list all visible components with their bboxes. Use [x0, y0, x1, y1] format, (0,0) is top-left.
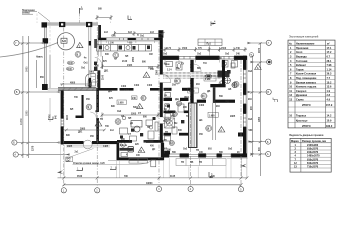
svg-text:ДШ: ДШ — [175, 99, 180, 101]
boiler fixtures — [218, 63, 236, 78]
svg-text:Кухня-Столовая: Кухня-Столовая — [296, 73, 317, 76]
door D2 arc — [163, 75, 171, 83]
svg-text:13.6: 13.6 — [327, 86, 332, 89]
svg-text:Ок4: Ок4 — [248, 70, 253, 73]
svg-text:10.2: 10.2 — [327, 81, 332, 84]
oval mark 2 — [66, 67, 74, 71]
svg-text:7.7: 7.7 — [327, 77, 331, 80]
svg-text:5265: 5265 — [131, 113, 137, 115]
tag 16 — [201, 93, 207, 99]
row leader B left — [17, 141, 60, 143]
svg-text:Ок1: Ок1 — [111, 36, 116, 38]
svg-text:Ок2: Ок2 — [183, 149, 188, 151]
svg-text:ПВ: ПВ — [190, 162, 194, 164]
svg-text:Ок1: Ок1 — [140, 36, 145, 38]
boxed 240 — [132, 96, 138, 100]
svg-text:2сл: 2сл — [110, 130, 115, 132]
svg-text:910х2070: 910х2070 — [307, 151, 319, 154]
svg-text:2985: 2985 — [230, 116, 236, 118]
fixture dark marks — [167, 70, 231, 123]
svg-text:Экспликация помещений: Экспликация помещений — [289, 36, 319, 39]
bubble V1 right — [267, 59, 272, 64]
dim line garage bottom — [60, 83, 91, 86]
svg-text:1402: 1402 — [147, 84, 153, 87]
detail circle — [83, 140, 92, 149]
svg-text:2985: 2985 — [80, 128, 86, 130]
svg-text:2434: 2434 — [127, 64, 133, 67]
wall x214 — [213, 103, 216, 140]
svg-text:ВМ: ВМ — [197, 68, 201, 70]
tag 11 — [176, 101, 181, 106]
lintel tag box — [198, 39, 222, 56]
svg-text:ДК2: ДК2 — [225, 102, 230, 104]
living triangle — [143, 72, 150, 78]
bubble A left — [13, 152, 18, 157]
svg-text:Холл: Холл — [296, 51, 303, 54]
svg-text:ДШ1: ДШ1 — [184, 97, 190, 99]
svg-text:ТВ: ТВ — [181, 162, 184, 164]
svg-text:ХЛ: ХЛ — [114, 59, 118, 61]
svg-text:157.9: 157.9 — [326, 104, 333, 107]
bottom dim row1 — [58, 176, 249, 179]
svg-text:ДВ: ДВ — [207, 91, 211, 93]
svg-text:10.9: 10.9 — [327, 120, 332, 123]
svg-text:Ок2: Ок2 — [197, 54, 202, 56]
misc marks in sauna room — [121, 153, 156, 167]
svg-text:183.0: 183.0 — [326, 125, 333, 128]
svg-text:1.900: 1.900 — [189, 91, 195, 93]
living dim line — [101, 64, 160, 69]
wire — [48, 88, 58, 90]
section T1 right — [273, 98, 278, 103]
svg-text:1.900: 1.900 — [118, 103, 124, 105]
boxed 1900b — [117, 100, 126, 105]
door threshold — [189, 154, 198, 156]
row leader A left — [18, 153, 70, 155]
svg-text:Сауна: Сауна — [120, 145, 128, 147]
party wall upper — [98, 25, 101, 39]
door D3 arc — [163, 117, 169, 123]
door D1 arc garage-living — [94, 56, 103, 71]
svg-text:1870: 1870 — [259, 47, 261, 53]
svg-text:м²: м² — [327, 41, 330, 45]
svg-text:Веранда: Веранда — [296, 56, 307, 59]
kitchen-living wall — [96, 88, 117, 91]
svg-text:1100: 1100 — [67, 69, 73, 71]
svg-text:ДС: ДС — [152, 149, 156, 151]
triangle tag garage — [77, 43, 83, 49]
svg-text:2560: 2560 — [157, 69, 159, 75]
svg-text:БМ: БМ — [62, 39, 67, 43]
window W5 — [243, 70, 246, 83]
svg-text:7.98: 7.98 — [327, 64, 332, 67]
dotted partition — [164, 72, 225, 78]
bubble V left — [14, 89, 19, 94]
svg-text:910х2070: 910х2070 — [307, 158, 319, 161]
svg-text:Дк2: Дк2 — [95, 111, 100, 113]
tag 12b — [172, 111, 177, 116]
svg-text:Гостиная: Гостиная — [296, 60, 308, 63]
svg-text:ДК1: ДК1 — [78, 132, 83, 134]
dining tag — [115, 119, 121, 125]
window W9 — [169, 154, 180, 157]
sill lines — [66, 146, 110, 147]
shower cabin — [165, 118, 175, 128]
room triangle right — [218, 127, 225, 133]
dashed ext lines top-left — [37, 14, 50, 57]
room tag garage — [75, 51, 81, 57]
svg-text:14.2: 14.2 — [327, 114, 332, 117]
svg-text:ПЛ: ПЛ — [125, 56, 129, 58]
svg-text:Ок3: Ок3 — [163, 54, 168, 56]
extra ticks row under top wall right — [106, 41, 234, 63]
svg-text:ХЛ: ХЛ — [121, 116, 125, 118]
carport column C5 — [42, 84, 48, 90]
central wall — [160, 38, 163, 141]
sauna bottom wall — [117, 157, 165, 160]
sauna inner wall — [120, 148, 134, 151]
toilet — [165, 104, 170, 111]
carport column C4 — [43, 38, 49, 43]
triangle A right — [255, 64, 262, 70]
svg-text:1480х2070: 1480х2070 — [307, 155, 320, 158]
svg-text:28.1: 28.1 — [327, 60, 332, 63]
svg-text:2,14: 2,14 — [167, 69, 172, 72]
svg-text:Ванная комната: Ванная комната — [296, 81, 316, 84]
svg-text:ТВ: ТВ — [100, 119, 103, 121]
svg-text:2.8: 2.8 — [327, 94, 331, 97]
svg-text:ТП: ТП — [164, 140, 167, 142]
bubble 3 — [156, 186, 161, 191]
door arc wing — [90, 112, 96, 118]
svg-text:1.14: 1.14 — [327, 68, 332, 71]
chimney — [158, 30, 163, 38]
triangle tag hall — [95, 121, 102, 127]
svg-text:11330: 11330 — [20, 118, 23, 125]
svg-text:1402: 1402 — [124, 89, 130, 92]
garage east wall — [89, 27, 91, 88]
carport column C2 — [59, 22, 65, 27]
svg-text:Терраса: Терраса — [296, 114, 307, 117]
bottom dim row2 — [62, 183, 242, 186]
bottom wall right section — [163, 153, 247, 157]
svg-text:19800: 19800 — [146, 183, 153, 185]
svg-text:4800: 4800 — [70, 81, 76, 84]
scatter small texts right cluster — [105, 58, 226, 164]
svg-text:910х2070: 910х2070 — [307, 148, 319, 151]
svg-text:ВС: ВС — [176, 68, 180, 70]
svg-text:Ок2: Ок2 — [117, 111, 122, 113]
top wall left section — [98, 38, 162, 41]
living left texts — [102, 61, 113, 93]
left dim texts — [20, 66, 35, 151]
section mark 2 left — [48, 117, 53, 120]
window W7 — [243, 114, 246, 127]
window W10 — [206, 154, 217, 157]
row leader V right — [247, 91, 266, 93]
svg-text:Ведомость дверных проемов: Ведомость дверных проемов — [289, 135, 324, 137]
svg-text:1.100: 1.100 — [108, 43, 114, 45]
corridor wall segs — [164, 88, 191, 101]
svg-text:ТВ: ТВ — [199, 162, 202, 164]
svg-text:4950: 4950 — [258, 116, 261, 122]
svg-text:Комната отдыха: Комната отдыха — [296, 86, 317, 89]
bubble G left — [14, 40, 19, 45]
svg-text:Навес: Навес — [36, 57, 44, 59]
bubble A right — [266, 151, 271, 156]
window W4 — [220, 56, 235, 59]
window W12 — [61, 119, 64, 127]
svg-text:1500: 1500 — [221, 48, 227, 50]
bubble 1 — [61, 188, 66, 193]
wing-kitchen wall — [96, 91, 99, 113]
boilers — [225, 78, 237, 88]
svg-text:Санузел: Санузел — [296, 90, 307, 93]
closet by garage — [92, 82, 99, 86]
turning circle — [57, 33, 74, 50]
tag T — [249, 53, 253, 57]
svg-text:ВН: ВН — [174, 123, 178, 125]
kitchen dim line — [101, 113, 160, 118]
right dim lines — [251, 42, 262, 176]
section mark 1 bottom — [77, 168, 83, 171]
dining triangle — [137, 104, 143, 110]
bottom wall row B — [61, 140, 164, 144]
svg-text:1.980: 1.980 — [209, 115, 215, 117]
svg-text:Дк1: Дк1 — [108, 91, 113, 93]
section line 1 top — [79, 14, 81, 24]
grid verticals dashed — [64, 27, 241, 187]
svg-text:1402: 1402 — [199, 104, 205, 107]
room tag hall — [86, 104, 92, 110]
wing vertical texts — [55, 98, 91, 120]
svg-text:ум: ум — [164, 95, 167, 97]
row leader A right — [250, 153, 266, 155]
window W3 — [179, 56, 196, 59]
svg-text:810х2070: 810х2070 — [307, 162, 319, 165]
bubble B left — [12, 140, 17, 145]
row of window texts top-left — [108, 35, 139, 45]
svg-text:36.3: 36.3 — [327, 73, 332, 76]
svg-text:4.9: 4.9 — [327, 99, 331, 102]
carport thin outline — [45, 23, 99, 90]
svg-text:1402: 1402 — [134, 84, 140, 87]
svg-text:Марка: Марка — [291, 140, 299, 143]
window W1 — [106, 38, 128, 40]
bench steps — [129, 159, 148, 164]
svg-text:СМ: СМ — [149, 54, 153, 56]
step line — [108, 159, 129, 161]
tag 22 — [233, 81, 239, 87]
svg-text:ПР: ПР — [147, 127, 151, 129]
svg-text:2140: 2140 — [122, 60, 128, 63]
wing left wall — [61, 91, 64, 145]
kitchen-dining fixtures — [120, 116, 155, 141]
extension lines to dims — [23, 43, 231, 178]
square tag sauna — [128, 147, 134, 153]
svg-text:Под. помещение: Под. помещение — [296, 77, 317, 80]
svg-text:3540: 3540 — [77, 175, 83, 178]
svg-text:Сауна: Сауна — [296, 99, 304, 102]
svg-text:5365: 5365 — [26, 110, 29, 116]
svg-text:ДК1: ДК1 — [104, 71, 109, 73]
garage bottom wall — [58, 88, 96, 91]
svg-text:1.9: 1.9 — [327, 90, 331, 93]
oval mark 1100 — [67, 61, 74, 65]
row leader V1 right — [250, 61, 266, 63]
window W2 — [136, 38, 154, 40]
window W6 — [243, 95, 246, 104]
svg-text:ВЛ: ВЛ — [70, 109, 74, 111]
bubble 4 — [188, 186, 193, 191]
row leader V left — [20, 91, 61, 93]
top wall right section — [160, 56, 247, 60]
svg-text:№: № — [289, 42, 292, 45]
tag 30a — [175, 78, 181, 84]
sauna triangle — [138, 147, 145, 153]
svg-text:Ок2: Ок2 — [228, 149, 233, 151]
wing inner walls — [82, 95, 84, 118]
dining table — [131, 121, 142, 133]
terrain curve — [0, 43, 58, 58]
svg-text:Гараж: Гараж — [296, 68, 304, 71]
left dim line A — [21, 36, 30, 158]
svg-text:Дк2: Дк2 — [66, 160, 71, 162]
section mark L1 — [128, 16, 132, 20]
dim row over section2 — [113, 31, 165, 36]
table 1 rooms — [288, 36, 335, 128]
svg-text:6.7: 6.7 — [327, 56, 331, 59]
row leader G left — [19, 42, 44, 44]
svg-text:Ок1: Ок1 — [84, 63, 89, 65]
jamb block — [94, 39, 97, 48]
carport column C3 — [86, 22, 92, 27]
dims along bottom wall texts — [162, 148, 240, 154]
svg-text:Ок4: Ок4 — [248, 118, 253, 121]
extra small dims scatter — [66, 54, 236, 157]
svg-text:1402: 1402 — [89, 71, 95, 74]
living room tag — [113, 52, 119, 58]
svg-text:АВ: АВ — [228, 88, 232, 91]
toilet room walls — [164, 111, 189, 136]
left aux dims — [37, 55, 51, 88]
section mark 3 bottom — [209, 172, 213, 178]
svg-text:2140: 2140 — [102, 74, 105, 80]
svg-text:2985: 2985 — [67, 146, 73, 148]
svg-text:Прихожая: Прихожая — [296, 47, 309, 50]
svg-text:ПЛ: ПЛ — [128, 118, 132, 120]
row leader B right — [248, 140, 266, 142]
label note top-left — [22, 10, 50, 22]
svg-text:Ок2: Ок2 — [225, 54, 230, 56]
svg-text:Ок1: Ок1 — [81, 67, 86, 69]
svg-text:Крыльцо: Крыльцо — [296, 120, 308, 123]
svg-text:1402: 1402 — [121, 85, 127, 88]
outer edge line — [227, 56, 248, 158]
steps — [85, 74, 95, 86]
door D4 arc — [194, 64, 202, 72]
svg-text:1500: 1500 — [182, 48, 188, 50]
left arrow mark — [57, 170, 63, 174]
right wall small texts — [248, 70, 253, 132]
svg-text:1485: 1485 — [103, 145, 109, 148]
right wall — [243, 56, 247, 158]
leader texts bottom-left — [66, 149, 152, 165]
svg-text:710х2070: 710х2070 — [307, 166, 319, 169]
top dims garage — [96, 15, 113, 20]
tag 13b — [169, 140, 174, 145]
svg-text:СМ: СМ — [222, 65, 226, 67]
bath walls — [222, 60, 225, 85]
svg-text:1170: 1170 — [166, 48, 172, 50]
section mark 4 top — [211, 21, 216, 27]
svg-text:1375: 1375 — [33, 145, 35, 151]
sink — [165, 93, 171, 98]
sauna circle tag — [121, 142, 126, 147]
tag 21 — [219, 81, 225, 87]
porch — [176, 159, 226, 166]
svg-text:ТВ: ТВ — [165, 132, 168, 134]
wall x191 — [190, 60, 194, 72]
window W11 — [222, 154, 231, 157]
table 2 doors — [289, 135, 331, 172]
kitchen counters — [97, 45, 152, 52]
oval tag corridor — [205, 74, 211, 78]
bubble B right — [266, 139, 271, 144]
svg-text:ИТОГО: ИТОГО — [302, 104, 311, 107]
bubble 5 — [238, 187, 243, 192]
svg-text:Душевая: Душевая — [296, 94, 308, 97]
sauna block left wall — [117, 143, 120, 158]
svg-text:1100: 1100 — [68, 63, 74, 65]
svg-text:5965: 5965 — [26, 66, 29, 72]
section mark 2 bottom — [110, 167, 116, 170]
garage right wall stub — [90, 82, 92, 88]
wall y100 right — [197, 100, 235, 103]
svg-text:3145: 3145 — [170, 175, 176, 178]
svg-text:17.1: 17.1 — [327, 47, 332, 50]
tag kitchen — [141, 95, 146, 100]
bathroom fixtures cluster — [165, 61, 238, 142]
section mark 1 top — [80, 6, 84, 14]
tag 18 — [206, 125, 212, 131]
carport column C1 — [42, 22, 48, 27]
sauna right wall — [161, 143, 164, 158]
dim row right section — [161, 47, 248, 52]
wall link — [164, 151, 170, 155]
bubble V right — [266, 89, 271, 94]
svg-text:Размер проема, мм: Размер проема, мм — [302, 140, 326, 143]
svg-text:Кабинет: Кабинет — [296, 64, 307, 67]
svg-text:1160: 1160 — [67, 114, 69, 120]
wing dim line — [64, 129, 106, 132]
svg-text:ИТОГО: ИТОГО — [302, 125, 311, 128]
svg-text:ум1: ум1 — [165, 90, 170, 92]
tag box in circle — [61, 38, 67, 43]
wall stub — [238, 133, 243, 137]
party wall lower — [98, 70, 101, 90]
svg-text:Наименование: Наименование — [296, 42, 315, 45]
bubble 2 — [95, 188, 100, 193]
boxed 1900 — [188, 88, 199, 93]
svg-text:1490: 1490 — [162, 148, 168, 151]
bubble G right — [266, 40, 271, 45]
svg-text:2100х900: 2100х900 — [307, 144, 319, 147]
svg-text:17.2: 17.2 — [327, 51, 332, 54]
boxed 8mm — [204, 76, 216, 81]
shaft hatched — [189, 103, 198, 148]
svg-text:8 мм: 8 мм — [205, 79, 211, 81]
